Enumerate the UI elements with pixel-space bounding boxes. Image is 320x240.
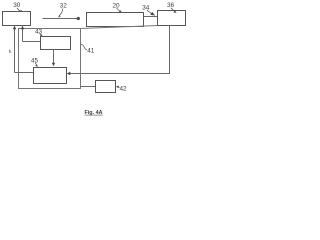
leader squiggle for label 41 [81, 44, 87, 50]
box 36 [158, 11, 186, 26]
wire up into box 30 right (from upper inner box) [21, 26, 41, 42]
svg-text:42: 42 [119, 86, 127, 93]
svg-text:32: 32 [60, 2, 68, 9]
svg-text:45: 45 [31, 57, 39, 64]
svg-text:h: h [9, 49, 12, 55]
leader arrow for label 30 [17, 8, 23, 12]
leader arrow for label 32 [58, 8, 63, 17]
box 42 [96, 81, 116, 93]
leader arrow for label 36 [171, 8, 177, 13]
wire 34 from box 20 to box 36 [144, 16, 158, 18]
inner box 45 [34, 68, 67, 84]
wire up into box 30 left (from lower box) [13, 26, 34, 73]
svg-text:41: 41 [87, 48, 95, 55]
leader arrow for label 20 [116, 8, 121, 13]
wire from enclosure top to box 36 bottom-left corner [81, 26, 158, 29]
svg-text:Fig. 4A: Fig. 4A [85, 110, 103, 116]
svg-text:20: 20 [112, 2, 120, 9]
svg-text:34: 34 [142, 4, 150, 11]
leader arrow for label 45 [35, 63, 38, 67]
wire 32 with dot head [43, 17, 80, 20]
leader arrow for label 42 [116, 86, 120, 88]
inner box 43 [41, 37, 71, 50]
leader arrow for label 34 [147, 10, 155, 16]
box 20 [87, 13, 144, 27]
arrow wire from box 43 down into box 45 [52, 50, 55, 67]
enclosure box 41 [19, 29, 81, 89]
box 30 [3, 12, 31, 26]
return wire from box 36 bottom down and left into box 45 [67, 26, 170, 76]
leader arrow for label 43 [40, 33, 43, 36]
wire from enclosure 41 to box 42 [81, 86, 96, 88]
